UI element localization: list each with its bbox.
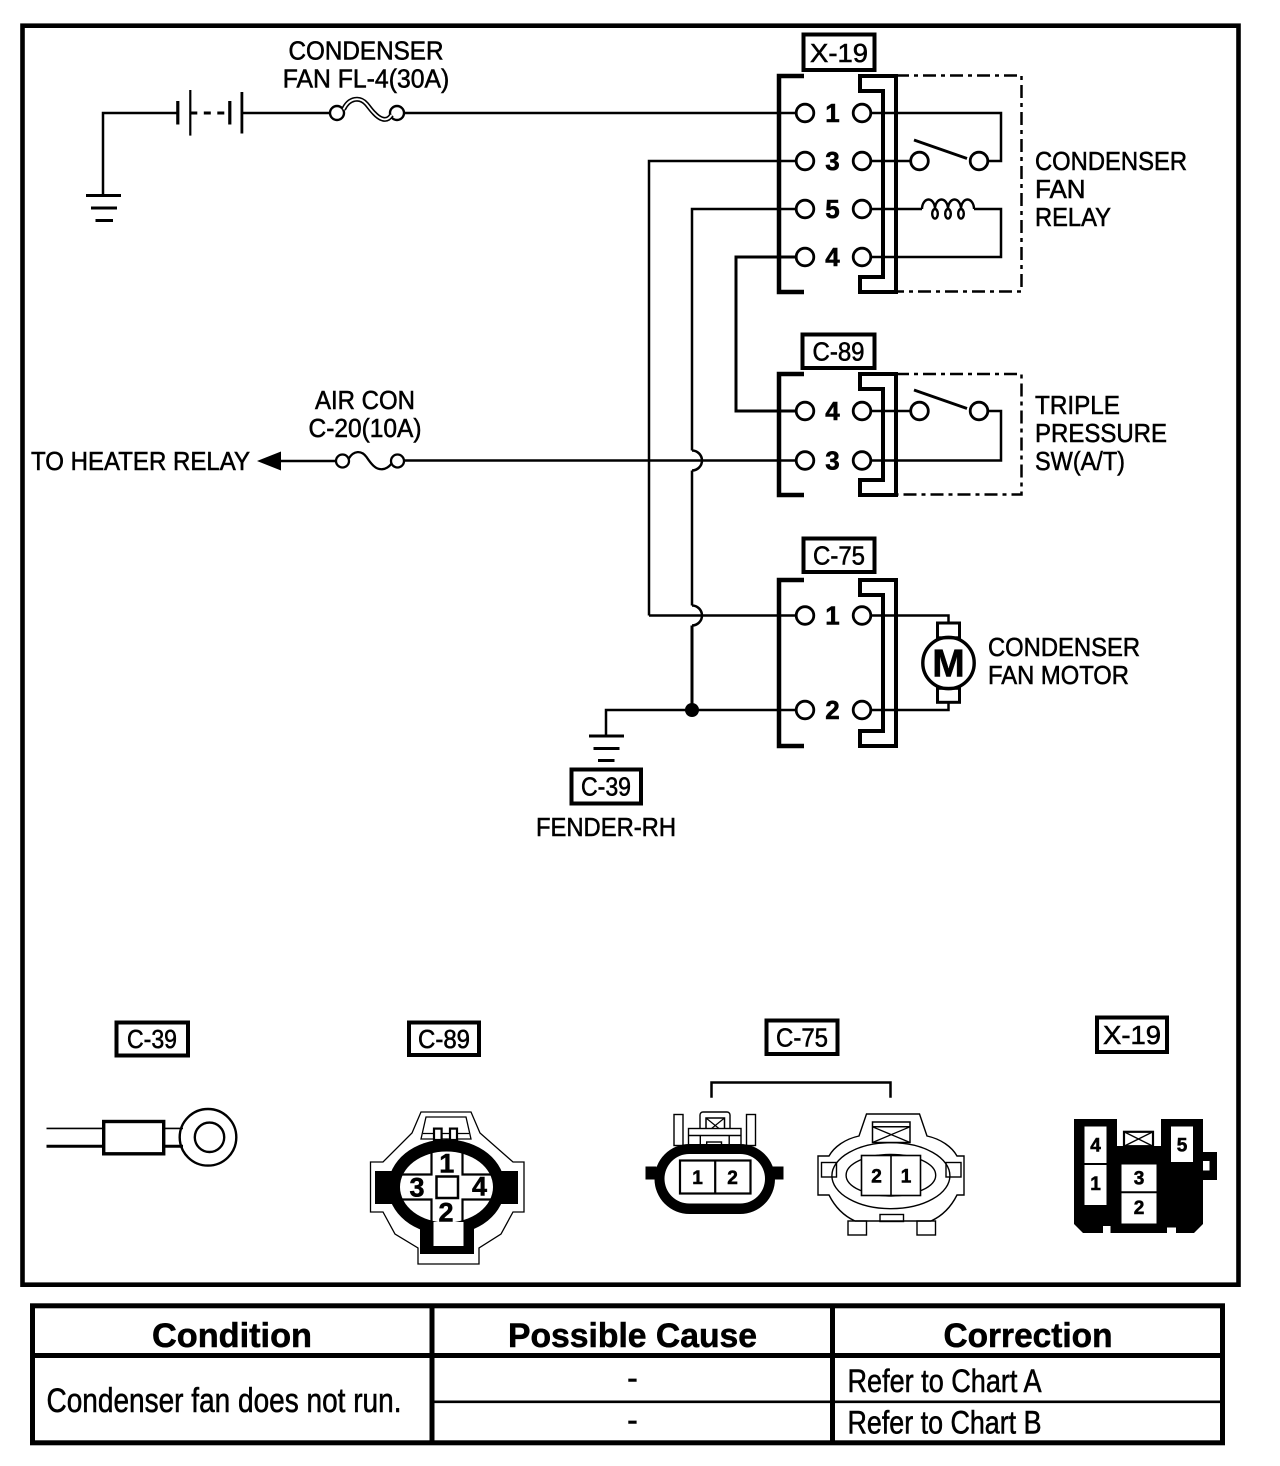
X-19 connector face view <box>1074 1119 1217 1233</box>
svg-text:C-39: C-39 <box>581 772 631 802</box>
net B middle segment <box>691 471 694 606</box>
column line 2 <box>830 1306 835 1443</box>
prongs <box>674 1115 683 1146</box>
C-89 pin 4 <box>796 402 814 420</box>
svg-text:C-75: C-75 <box>813 541 865 571</box>
tier block <box>689 1129 742 1155</box>
svg-text:C-75: C-75 <box>776 1023 828 1053</box>
pin numbers <box>409 1149 487 1228</box>
label: CONDENSER FAN RELAY <box>1035 146 1187 232</box>
condenser fan motor <box>923 623 974 702</box>
svg-text:RELAY: RELAY <box>1035 202 1111 232</box>
connector C-75 right half <box>860 580 896 746</box>
svg-text:1: 1 <box>825 98 839 128</box>
svg-text:Condition: Condition <box>152 1317 312 1355</box>
svg-text:FAN FL-4(30A): FAN FL-4(30A) <box>283 64 450 94</box>
ground wire C-75 pin2 <box>606 710 797 735</box>
wire X-19 pin5 down (net B upper) <box>692 209 797 451</box>
center post <box>700 1112 730 1133</box>
svg-text:CONDENSER: CONDENSER <box>988 632 1140 662</box>
svg-text:2: 2 <box>825 695 839 725</box>
svg-text:FAN MOTOR: FAN MOTOR <box>988 660 1129 690</box>
bottom notches <box>1103 1226 1111 1233</box>
wire X-19 pin3 down (net A) <box>649 161 797 616</box>
svg-text:Possible Cause: Possible Cause <box>508 1317 757 1355</box>
svg-text:C-20(10A): C-20(10A) <box>309 413 422 443</box>
column line 1 <box>430 1306 435 1443</box>
svg-text:Refer to Chart A: Refer to Chart A <box>848 1363 1042 1399</box>
svg-text:1: 1 <box>1090 1174 1101 1195</box>
cells 3/2 <box>1122 1165 1157 1224</box>
legs <box>848 1221 867 1235</box>
C-39 label box <box>572 770 642 804</box>
table frame <box>33 1306 1223 1443</box>
cells 4/1 <box>1085 1127 1107 1206</box>
C-75 views bracket <box>712 1083 891 1098</box>
cell 5 <box>1171 1127 1193 1163</box>
svg-text:TRIPLE: TRIPLE <box>1035 390 1120 420</box>
svg-text:3: 3 <box>1134 1169 1145 1190</box>
svg-text:FAN: FAN <box>1035 174 1086 204</box>
net B lower segment <box>691 626 694 711</box>
ground (battery) <box>86 196 121 221</box>
svg-text:-: - <box>627 1402 638 1438</box>
connector C-75 left half <box>779 580 804 746</box>
arrow to heater relay <box>257 452 281 471</box>
svg-text:CONDENSER: CONDENSER <box>1035 146 1187 176</box>
svg-text:AIR CON: AIR CON <box>315 385 415 415</box>
X-19 pin 1 <box>796 104 814 122</box>
pin numbers <box>1090 1136 1188 1220</box>
svg-text:5: 5 <box>825 194 839 224</box>
body (black stadium) <box>655 1144 776 1214</box>
wire pin5 to coil <box>871 208 922 211</box>
svg-text:4: 4 <box>472 1172 487 1202</box>
svg-text:Refer to Chart B: Refer to Chart B <box>848 1405 1042 1441</box>
relay coil <box>922 200 974 219</box>
wire pin4 to switch <box>871 410 911 413</box>
svg-text:4: 4 <box>1090 1136 1101 1157</box>
wire coil to pin4 <box>871 209 1001 257</box>
battery B1 <box>178 90 242 136</box>
wire arrow to fuse <box>279 460 336 463</box>
X-19 pin 4 <box>796 248 814 266</box>
C-75 label box (view) <box>767 1021 838 1055</box>
svg-text:4: 4 <box>825 396 840 426</box>
svg-text:1: 1 <box>825 601 839 631</box>
wire C-75 pin1 to motor <box>871 616 949 624</box>
C-75 pin 2 <box>796 701 814 719</box>
bottom key <box>434 1222 464 1246</box>
svg-text:5: 5 <box>1177 1136 1188 1157</box>
row separator <box>432 1401 1222 1404</box>
C-39 label box (view) <box>117 1023 189 1056</box>
seal rings <box>832 1143 950 1209</box>
top latch tab <box>421 1117 471 1139</box>
wire net A into C-75 pin1 <box>649 614 797 617</box>
label: TRIPLE PRESSURE SW(A/T) <box>1035 390 1167 476</box>
hop over heater wire <box>692 451 702 471</box>
quadrant dividers <box>401 1153 492 1221</box>
relay switch blade <box>914 140 967 159</box>
svg-text:X-19: X-19 <box>1103 1020 1161 1050</box>
heater relay wire to C-89 pin 3 <box>404 459 797 462</box>
svg-text:C-89: C-89 <box>418 1024 470 1054</box>
svg-text:2: 2 <box>871 1167 882 1188</box>
svg-text:3: 3 <box>825 446 839 476</box>
fuse C-20(10A) <box>336 452 404 469</box>
svg-text:2: 2 <box>727 1168 738 1189</box>
wire battery to ground <box>103 113 177 194</box>
connector X-19 right half <box>860 76 896 292</box>
wire switch to pin3 <box>871 411 1001 461</box>
svg-text:Correction: Correction <box>944 1317 1113 1355</box>
C-39 ring terminal <box>47 1109 237 1166</box>
svg-text:CONDENSER: CONDENSER <box>289 36 444 66</box>
svg-text:X-19: X-19 <box>810 38 868 68</box>
fusible link FL-4(30A) <box>330 99 404 120</box>
X-19 pin 3 <box>796 152 814 170</box>
header separator <box>30 1353 1225 1358</box>
side lugs <box>375 1171 400 1204</box>
C-75 male view <box>818 1114 964 1235</box>
C-89 pin 3 <box>796 452 814 470</box>
black body <box>1074 1119 1217 1233</box>
X-19 label box (view) <box>1097 1018 1167 1053</box>
wire fuse to X-19 pin 1 <box>404 112 797 115</box>
relay switch contacts <box>911 152 929 170</box>
pressure switch contacts <box>911 402 929 420</box>
top X-box <box>873 1122 911 1143</box>
C-89 label box (view) <box>409 1023 479 1056</box>
svg-text:3: 3 <box>409 1173 424 1203</box>
svg-text:1: 1 <box>692 1168 703 1189</box>
svg-text:C-89: C-89 <box>813 337 865 367</box>
pressure switch blade <box>914 390 967 409</box>
svg-text:FENDER-RH: FENDER-RH <box>536 812 676 842</box>
svg-text:SW(A/T): SW(A/T) <box>1035 446 1125 476</box>
connector X-19 left half <box>779 76 804 292</box>
wing details <box>822 1163 837 1178</box>
outer silhouette <box>818 1114 964 1221</box>
terminal cells <box>680 1161 751 1194</box>
wire X-19 pin4 down to C-89 pin4 <box>736 257 797 411</box>
svg-text:TO HEATER RELAY: TO HEATER RELAY <box>31 446 250 476</box>
svg-text:Condenser fan does not run.: Condenser fan does not run. <box>47 1382 402 1420</box>
top X-box <box>1124 1132 1153 1146</box>
C-75 label box <box>804 539 875 573</box>
bottom key housing <box>420 1218 474 1254</box>
svg-text:1: 1 <box>901 1167 912 1188</box>
C-75 female view <box>646 1112 784 1214</box>
center key square <box>437 1177 459 1199</box>
X-19 pin 5 <box>796 200 814 218</box>
hop over C-75 pin1 wire <box>692 606 702 626</box>
C-75 pin 1 <box>796 607 814 625</box>
ground (fender) <box>589 736 624 761</box>
svg-text:2: 2 <box>438 1198 453 1228</box>
C-89 label box <box>803 335 875 369</box>
svg-text:4: 4 <box>825 242 840 272</box>
condenser fan relay box (dash-dot) <box>896 76 1022 292</box>
label: CONDENSER FAN MOTOR <box>988 632 1140 690</box>
seal ring <box>388 1140 505 1235</box>
connector C-89 right half <box>860 374 896 495</box>
svg-text:PRESSURE: PRESSURE <box>1035 418 1167 448</box>
svg-text:C-39: C-39 <box>127 1024 177 1054</box>
X-19 label box <box>804 35 875 71</box>
outer silhouette <box>371 1112 525 1264</box>
svg-text:3: 3 <box>825 146 839 176</box>
relay wire pin1 to switch <box>871 113 1001 161</box>
svg-text:-: - <box>627 1360 638 1396</box>
svg-text:1: 1 <box>439 1149 454 1179</box>
wire motor to C-75 pin2 <box>871 702 949 710</box>
svg-text:2: 2 <box>1134 1198 1145 1219</box>
wire pin3 to switch <box>871 160 911 163</box>
wire battery to fuse <box>242 112 330 115</box>
svg-text:M: M <box>932 643 965 686</box>
junction dot <box>685 703 699 717</box>
triple pressure switch box (dash-dot) <box>896 374 1022 495</box>
terminal cells <box>862 1156 921 1196</box>
connector C-89 left half <box>779 374 804 495</box>
C-89 connector face view <box>371 1112 525 1264</box>
